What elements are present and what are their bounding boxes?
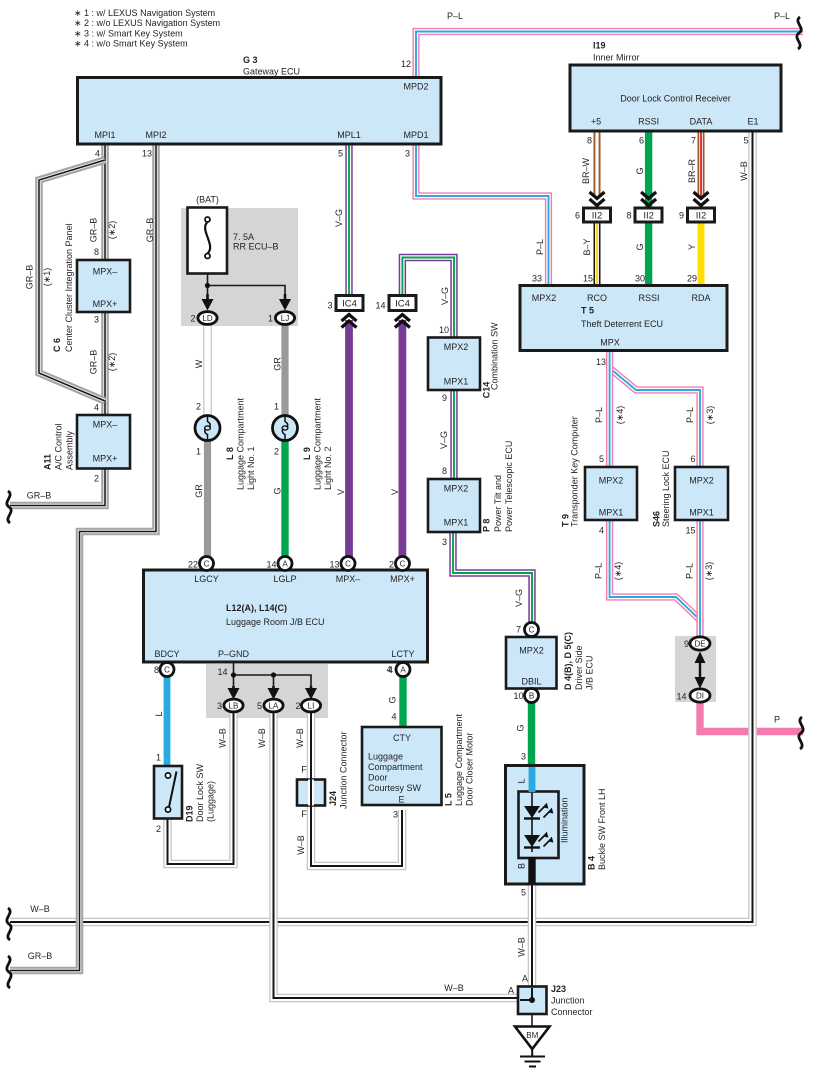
T9 S46 labels: [561, 406, 716, 581]
svg-text:II2: II2: [643, 211, 654, 222]
svg-text:J24: J24: [328, 791, 338, 806]
svg-text:Door Lock SW: Door Lock SW: [195, 763, 205, 822]
connector II2 pin 8: [635, 208, 662, 222]
wire G from D4 DBIL pin 10 to B4 pin 3: [528, 702, 535, 766]
J23 labels: [444, 974, 592, 1041]
arrow into LA: [268, 686, 280, 700]
svg-text:7. 5A: 7. 5A: [233, 232, 254, 242]
svg-text:P–L: P–L: [685, 563, 695, 579]
svg-text:MPD1: MPD1: [403, 130, 428, 140]
shaded panel: fuse/battery area: [181, 208, 298, 326]
svg-text:P–L: P–L: [447, 11, 463, 21]
LED path inside B4: [531, 793, 533, 852]
svg-text:14: 14: [676, 692, 686, 702]
ground symbol: [520, 1049, 545, 1067]
svg-text:Transponder Key Computer: Transponder Key Computer: [570, 416, 580, 527]
svg-text:(BAT): (BAT): [196, 195, 219, 205]
svg-text:6: 6: [639, 136, 644, 146]
svg-text:LJ: LJ: [281, 314, 289, 323]
svg-text:V–G: V–G: [334, 209, 344, 227]
svg-text:LA: LA: [269, 702, 279, 711]
svg-text:7: 7: [691, 136, 696, 146]
connector LI pin 2: [301, 699, 320, 712]
connector 2 C on MPX+: [396, 557, 410, 571]
wire W-B from LA pin 5 down to J23 pin A: [274, 711, 519, 998]
svg-text:A: A: [508, 986, 514, 996]
rotated wire colour labels top right: [535, 158, 749, 256]
wire GR-B from G3 MPI1 pin 4 through C6 to A11: [101, 144, 109, 415]
svg-text:Door: Door: [368, 773, 388, 783]
fuse symbol: [205, 217, 210, 259]
legend notes: [74, 8, 220, 49]
svg-text:LI: LI: [308, 702, 315, 711]
svg-text:F: F: [301, 809, 307, 819]
connector LD pin 2: [198, 312, 217, 325]
junction dot P-GND 2: [271, 672, 276, 677]
C6 A11 labels: [43, 223, 118, 483]
wire W from fuse LD to bulb L8: [203, 322, 212, 416]
svg-text:A: A: [400, 666, 406, 675]
connector LJ pin 1: [275, 312, 294, 325]
svg-text:W–B: W–B: [296, 835, 306, 855]
wire V-G from G3 MPL1 pin 5 to IC4: [345, 144, 352, 296]
DE DI labels: [676, 639, 780, 725]
svg-text:14: 14: [375, 301, 385, 311]
wire GR-B from G3 MPI2 pin 13 down to bottom left break: [10, 144, 156, 971]
svg-text:2: 2: [196, 402, 201, 412]
svg-text:Luggage Compartment: Luggage Compartment: [236, 397, 246, 490]
wire from J23 to ground BM: [531, 1014, 533, 1027]
connector IC4 pin 14: [389, 296, 416, 311]
svg-text:10: 10: [513, 691, 523, 701]
svg-text:MPX+: MPX+: [93, 454, 118, 464]
svg-text:LGCY: LGCY: [194, 574, 219, 584]
B4 labels: [516, 724, 608, 897]
D4 D5 labels: [513, 625, 594, 702]
svg-text:15: 15: [685, 526, 695, 536]
svg-text:MPI1: MPI1: [94, 130, 115, 140]
svg-text:V: V: [336, 489, 346, 495]
svg-text:RDA: RDA: [691, 293, 710, 303]
connector 4 A on LCTY: [396, 663, 410, 677]
W-B wire through J24: [308, 780, 314, 806]
svg-text:C 6: C 6: [52, 338, 62, 352]
svg-text:13: 13: [596, 357, 606, 367]
svg-text:A: A: [282, 560, 288, 569]
A/C control assembly A11 box: [77, 415, 130, 469]
wire V-G from P8 MPX1 pin 3 to D4 MPX2 pin 7: [453, 532, 532, 623]
connector LB pin 3: [224, 699, 243, 712]
svg-text:MPX1: MPX1: [444, 377, 469, 387]
svg-text:C: C: [400, 560, 406, 569]
transponder key computer T9 box: [585, 467, 637, 520]
break symbol P bottom right: [799, 717, 803, 749]
svg-text:MPX2: MPX2: [532, 293, 557, 303]
fuse box 7.5A RR ECU-B: [188, 208, 228, 274]
svg-text:L 8: L 8: [225, 447, 235, 460]
chevron arrows above II2 pin 8: [641, 192, 656, 206]
svg-text:MPX2: MPX2: [444, 484, 469, 494]
svg-text:(∗3): (∗3): [704, 562, 714, 581]
svg-text:DI: DI: [696, 692, 704, 701]
wire G from LCTY pin 4 to L5 CTY pin 4: [399, 675, 406, 728]
svg-text:MPI2: MPI2: [145, 130, 166, 140]
break symbol GR-B left bottom: [7, 956, 11, 988]
wire G from I19 RSSI pin 6 to T5 RSSI pin 30: [645, 131, 652, 286]
wire from fuse to LD and LJ: [208, 258, 286, 296]
gateway ECU G3 box: [78, 78, 442, 145]
svg-text:C: C: [164, 666, 170, 675]
svg-text:RR ECU–B: RR ECU–B: [233, 242, 279, 252]
L5 courtesy SW labels: [368, 665, 475, 820]
svg-text:Combination SW: Combination SW: [490, 322, 500, 390]
svg-text:Driver Side: Driver Side: [574, 645, 584, 690]
buckle SW front LH B4 box: [506, 766, 585, 885]
connector DI pin 14: [690, 689, 710, 702]
svg-text:2: 2: [295, 701, 300, 711]
svg-text:GR–B: GR–B: [25, 265, 35, 290]
svg-text:B 4: B 4: [587, 856, 597, 870]
svg-text:GR–B: GR–B: [89, 350, 99, 375]
chevron arrows below IC4 pin 14: [395, 315, 410, 328]
svg-text:Center Cluster Integration Pan: Center Cluster Integration Panel: [64, 223, 74, 352]
svg-text:8: 8: [442, 466, 447, 476]
svg-text:P: P: [774, 715, 780, 725]
svg-text:W–B: W–B: [739, 161, 749, 181]
svg-text:LGLP: LGLP: [273, 574, 296, 584]
svg-text:(∗2): (∗2): [107, 221, 117, 240]
svg-text:3: 3: [442, 537, 447, 547]
wire P from DI pin 14 to right break: [700, 701, 803, 732]
connector 8 C on BDCY: [160, 663, 174, 677]
svg-text:MPX1: MPX1: [689, 508, 714, 518]
svg-text:MPX: MPX: [600, 338, 620, 348]
svg-text:Power Telescopic ECU: Power Telescopic ECU: [504, 441, 514, 532]
svg-text:8: 8: [94, 247, 99, 257]
svg-text:13: 13: [329, 560, 339, 570]
LED 1: [524, 803, 553, 819]
svg-text:Y: Y: [687, 244, 697, 250]
svg-text:5: 5: [599, 454, 604, 464]
J24 labels: [301, 731, 348, 819]
svg-text:15: 15: [583, 274, 593, 284]
svg-text:+5: +5: [591, 117, 601, 127]
svg-text:P–L: P–L: [774, 11, 790, 21]
svg-text:F: F: [301, 765, 307, 775]
svg-text:4: 4: [386, 665, 391, 675]
connector II2 pin 9: [688, 208, 715, 222]
svg-text:S46: S46: [652, 511, 662, 527]
svg-text:3: 3: [521, 752, 526, 762]
wire B inside B4: [528, 857, 535, 884]
svg-text:G: G: [635, 167, 645, 174]
double arrow between DE and DI: [695, 652, 706, 689]
svg-text:3: 3: [217, 701, 222, 711]
svg-text:Luggage Compartment: Luggage Compartment: [454, 713, 464, 806]
svg-text:D 4(B), D 5(C): D 4(B), D 5(C): [563, 632, 573, 690]
svg-text:MPX2: MPX2: [689, 476, 714, 486]
chevron arrows above II2 pin 9: [694, 192, 709, 206]
svg-text:1: 1: [156, 753, 161, 763]
W-B rotated labels: [218, 728, 527, 957]
wire L inside B4: [529, 767, 536, 792]
bulb pin numbers: [196, 402, 279, 457]
B4 inner LED box: [519, 792, 559, 859]
arrow into LI: [305, 686, 317, 700]
svg-text:2: 2: [190, 314, 195, 324]
svg-text:LCTY: LCTY: [391, 649, 414, 659]
wire L from BDCY pin 8 to D19 pin 1: [164, 676, 171, 766]
svg-text:RCO: RCO: [587, 293, 607, 303]
svg-text:E: E: [398, 795, 404, 805]
svg-text:DE: DE: [694, 640, 705, 649]
inner mirror texts: [575, 94, 759, 221]
svg-text:Theft Deterrent ECU: Theft Deterrent ECU: [581, 319, 663, 329]
svg-text:29: 29: [687, 274, 697, 284]
svg-text:A: A: [522, 974, 528, 984]
T5 texts: [532, 274, 711, 368]
svg-text:P–L: P–L: [685, 407, 695, 423]
svg-text:33: 33: [532, 274, 542, 284]
chevron arrows above II2 pin 6: [590, 192, 605, 206]
fuse labels: [190, 195, 278, 324]
svg-text:(∗4): (∗4): [613, 562, 623, 581]
svg-text:9: 9: [684, 639, 689, 649]
svg-text:13: 13: [142, 149, 152, 159]
svg-text:GR–B: GR–B: [27, 491, 52, 501]
D19 labels: [154, 711, 216, 834]
svg-text:MPX1: MPX1: [444, 518, 469, 528]
svg-text:7: 7: [516, 625, 521, 635]
svg-text:II2: II2: [592, 211, 603, 222]
svg-text:J/B ECU: J/B ECU: [585, 655, 595, 690]
wire P-L branch from T5 MPX to S46 MPX2 pin 6: [610, 368, 700, 467]
wire labels W GR G V: [194, 209, 524, 607]
connector 7 C on D4 MPX2: [525, 623, 539, 637]
svg-text:V–G: V–G: [514, 589, 524, 607]
C14 P8 labels: [439, 322, 514, 547]
wire Y from II2 pin 9 to T5 RDA pin 29: [698, 222, 705, 286]
luggage compartment door courtesy SW L5 box: [362, 727, 442, 805]
connector LA pin 5: [264, 699, 283, 712]
arrow into LD: [202, 294, 214, 311]
svg-text:4: 4: [599, 526, 604, 536]
wire V from IC4 pin 3 to MPX- pin 13: [345, 320, 353, 558]
wire BR-R from I19 DATA pin 7 to II2: [698, 131, 705, 197]
svg-text:Junction Connector: Junction Connector: [339, 731, 349, 809]
svg-text:Light No. 1: Light No. 1: [246, 446, 256, 490]
break symbol W-B left bottom: [7, 908, 11, 940]
svg-text:LB: LB: [229, 702, 239, 711]
svg-text:4: 4: [95, 149, 100, 159]
svg-text:W–B: W–B: [30, 904, 50, 914]
svg-text:8: 8: [587, 136, 592, 146]
inner mirror I19 box: [570, 65, 781, 131]
svg-text:J23: J23: [551, 984, 566, 994]
connector 22 C on LGCY: [200, 557, 214, 571]
svg-text:G: G: [635, 243, 645, 250]
junction dot P-GND 1: [231, 672, 236, 677]
svg-text:Power Tilt and: Power Tilt and: [493, 475, 503, 532]
svg-text:3: 3: [327, 301, 332, 311]
svg-text:14: 14: [266, 560, 276, 570]
svg-text:E1: E1: [747, 117, 758, 127]
svg-text:8: 8: [626, 211, 631, 221]
J23 wire stub inside: [520, 988, 532, 1000]
svg-text:W–B: W–B: [444, 983, 464, 993]
svg-text:P–L: P–L: [535, 239, 545, 255]
svg-text:Assembly: Assembly: [65, 430, 75, 470]
door lock SW D19 box: [154, 766, 182, 819]
svg-text:G: G: [273, 487, 283, 494]
svg-text:10: 10: [439, 325, 449, 335]
svg-text:∗ 3 : w/ Smart Key System: ∗ 3 : w/ Smart Key System: [74, 28, 183, 38]
svg-text:30: 30: [635, 274, 645, 284]
svg-text:W–B: W–B: [257, 728, 267, 748]
combination SW C14 box: [428, 338, 480, 391]
svg-text:22: 22: [188, 560, 198, 570]
wire BR-W from I19 +5 pin 8 to II2: [594, 131, 601, 197]
luggage room J/B ECU L12 box: [144, 570, 428, 662]
wire P-L from S46 MPX1 pin 15 to DE: [696, 520, 703, 638]
svg-text:L: L: [154, 711, 164, 716]
svg-text:Luggage: Luggage: [368, 752, 403, 762]
svg-text:Gateway ECU: Gateway ECU: [243, 67, 300, 77]
wire P-L from G3 MPD1 pin 3 to T5 MPX2 pin 33: [416, 144, 549, 286]
junction connector J23 box: [518, 987, 547, 1015]
svg-text:GR–B: GR–B: [145, 218, 155, 243]
svg-text:Steering Lock ECU: Steering Lock ECU: [661, 450, 671, 527]
svg-text:9: 9: [442, 393, 447, 403]
wire P-L from G3 MPD2 pin 12 to right break: [416, 32, 803, 78]
svg-text:Compartment: Compartment: [368, 762, 423, 772]
svg-text:P 8: P 8: [482, 519, 492, 532]
bulb L8 luggage compartment light No.1: [195, 416, 220, 441]
svg-text:Buckle SW Front LH: Buckle SW Front LH: [597, 788, 607, 870]
svg-text:CTY: CTY: [393, 733, 411, 743]
svg-text:GR–B: GR–B: [89, 218, 99, 243]
svg-text:P–L: P–L: [594, 563, 604, 579]
svg-text:2: 2: [94, 474, 99, 484]
center cluster integration panel C6 box: [77, 260, 130, 312]
svg-text:A11: A11: [43, 454, 53, 470]
break symbol P-L top right: [797, 17, 801, 49]
svg-text:Junction: Junction: [551, 996, 585, 1006]
svg-text:P–GND: P–GND: [218, 649, 250, 659]
svg-text:W–B: W–B: [295, 728, 305, 748]
svg-text:MPD2: MPD2: [403, 82, 428, 92]
svg-text:5: 5: [521, 888, 526, 898]
svg-text:4: 4: [94, 403, 99, 413]
svg-text:MPX2: MPX2: [444, 342, 469, 352]
LED 2: [524, 832, 553, 848]
svg-text:IC4: IC4: [342, 299, 357, 310]
svg-text:A/C Control: A/C Control: [54, 423, 64, 470]
wire V-G from IC4 pin 14 to C14 MPX2 pin 10: [402, 258, 454, 339]
svg-text:1: 1: [274, 402, 279, 412]
svg-text:6: 6: [690, 454, 695, 464]
svg-text:L12(A), L14(C): L12(A), L14(C): [226, 603, 287, 613]
svg-text:V–G: V–G: [440, 287, 450, 305]
svg-text:Inner Mirror: Inner Mirror: [593, 53, 640, 63]
svg-text:(∗4): (∗4): [615, 406, 625, 425]
bulb L9 luggage compartment light No.2: [273, 416, 298, 441]
svg-text:∗ 1 : w/ LEXUS Navigation Syst: ∗ 1 : w/ LEXUS Navigation System: [74, 8, 215, 18]
svg-text:14: 14: [217, 667, 227, 677]
svg-text:∗ 4 : w/o Smart Key System: ∗ 4 : w/o Smart Key System: [74, 39, 188, 49]
wire GR-B (*1) bypass around C6: [39, 160, 105, 401]
svg-text:MPL1: MPL1: [337, 130, 361, 140]
svg-text:Light No. 2: Light No. 2: [323, 446, 333, 490]
svg-text:MPX–: MPX–: [93, 267, 118, 277]
junction connector J24 box: [297, 780, 325, 806]
svg-text:5: 5: [338, 149, 343, 159]
connector 14 A on LGLP: [278, 557, 292, 571]
svg-text:C: C: [204, 560, 210, 569]
svg-text:GR: GR: [194, 484, 204, 498]
svg-text:(∗2): (∗2): [107, 353, 117, 372]
svg-text:2: 2: [274, 447, 279, 457]
svg-text:MPX–: MPX–: [336, 574, 361, 584]
svg-text:W: W: [194, 359, 204, 368]
svg-text:4: 4: [391, 712, 396, 722]
svg-text:1: 1: [196, 447, 201, 457]
wire W-B from LI pin 2 through J24 to L5 pin 3: [311, 711, 402, 866]
svg-text:Luggage Room J/B ECU: Luggage Room J/B ECU: [226, 617, 325, 627]
L12 box labels: [154, 560, 415, 712]
bulb component labels: [225, 397, 333, 490]
connector 10 B on D4 DBIL: [525, 689, 539, 703]
wire G from bulb L9 to LGLP pin 14: [281, 440, 288, 558]
svg-text:G 3: G 3: [243, 55, 258, 65]
connector 13 C on MPX-: [341, 557, 355, 571]
svg-text:(∗1): (∗1): [42, 268, 52, 287]
wire V-G from C14 MPX1 pin 9 to P8 MPX2 pin 8: [450, 390, 457, 480]
power tilt ECU P8 box: [428, 479, 480, 532]
wire P-GND pin 14 to LB LA LI splices: [234, 662, 312, 686]
svg-text:BR–R: BR–R: [687, 159, 697, 184]
wire GR from bulb L8 to LGCY pin 22: [204, 440, 211, 558]
svg-text:G: G: [516, 724, 526, 731]
svg-text:(∗3): (∗3): [705, 406, 715, 425]
svg-text:GR–B: GR–B: [28, 951, 53, 961]
svg-text:12: 12: [401, 59, 411, 69]
svg-text:MPX1: MPX1: [599, 508, 624, 518]
svg-text:IC4: IC4: [395, 299, 410, 310]
svg-text:5: 5: [257, 701, 262, 711]
connector DE pin 9: [690, 637, 710, 650]
svg-text:MPX+: MPX+: [390, 574, 415, 584]
svg-text:9: 9: [679, 211, 684, 221]
svg-text:W–B: W–B: [218, 728, 228, 748]
svg-text:L 9: L 9: [302, 447, 312, 460]
wire B-Y from II2 pin 6 to T5 RCO pin 15: [594, 222, 601, 286]
svg-text:BM: BM: [526, 1031, 538, 1040]
svg-text:Door Closer Motor: Door Closer Motor: [465, 732, 475, 806]
svg-text:V: V: [390, 489, 400, 495]
svg-text:BDCY: BDCY: [154, 649, 179, 659]
steering lock ECU S46 box: [675, 467, 728, 520]
shaded panel: DE/DI connector area: [675, 636, 716, 702]
svg-text:T 5: T 5: [581, 306, 594, 316]
svg-text:DBIL: DBIL: [521, 677, 541, 687]
J23 junction dot: [529, 997, 535, 1003]
D19 switch symbol: [165, 772, 176, 813]
svg-text:II2: II2: [696, 211, 707, 222]
svg-text:C: C: [345, 560, 351, 569]
svg-text:MPX+: MPX+: [93, 299, 118, 309]
wire P-L from T9 MPX1 pin 4 to DE: [610, 520, 700, 638]
